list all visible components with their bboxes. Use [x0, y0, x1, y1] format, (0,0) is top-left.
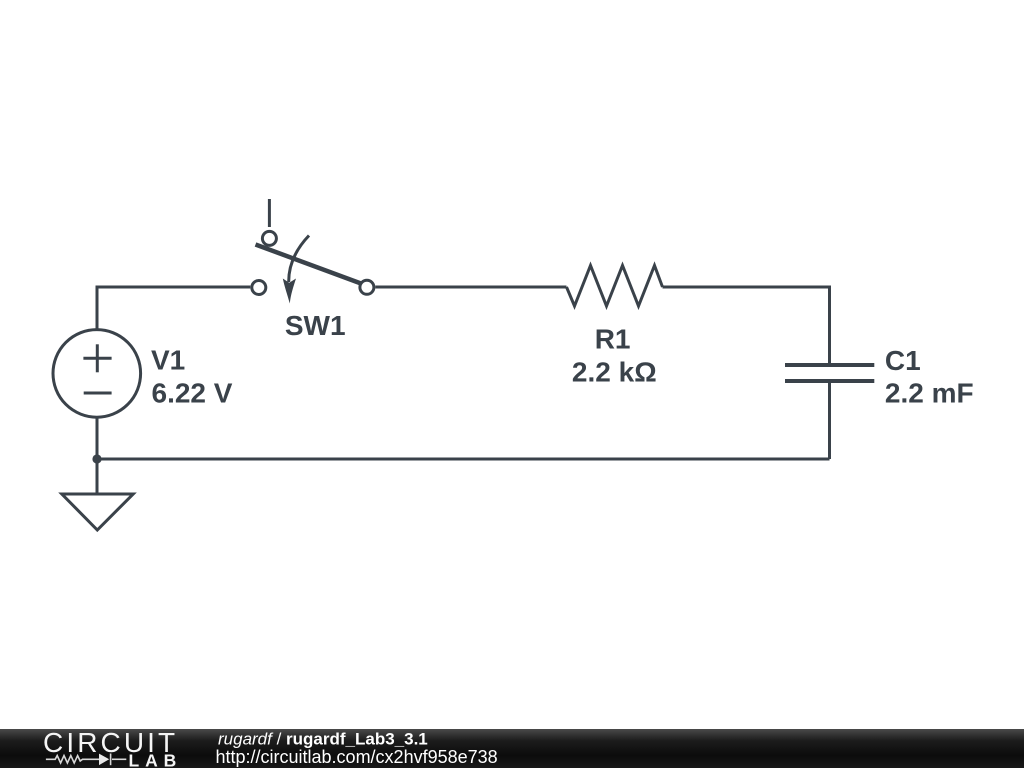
wire: top-left horizontal from V1 riser to switch left terminal — [97, 287, 250, 330]
switch arrowhead — [283, 279, 296, 304]
svg-text:LAB: LAB — [129, 750, 183, 768]
wire: capacitor bottom plate down to bottom rail — [828, 381, 831, 459]
switch terminal left — [252, 281, 266, 295]
wire: switch right terminal to resistor — [375, 286, 566, 289]
logo resistor-diode squiggle — [46, 754, 126, 766]
ground — [62, 494, 133, 530]
node junction dot — [92, 454, 101, 463]
footer bar — [0, 729, 1024, 768]
capacitor C1 — [785, 365, 874, 381]
switch arrow arc — [289, 236, 309, 283]
svg-text:http://circuitlab.com/cx2hvf95: http://circuitlab.com/cx2hvf958e738 — [216, 747, 498, 767]
wire: switch top stub — [268, 199, 271, 227]
switch lever — [256, 245, 362, 284]
wire: bottom rail — [97, 458, 830, 461]
switch terminal top — [262, 231, 276, 245]
voltage source V1 — [53, 330, 141, 418]
switch terminal right — [360, 280, 374, 294]
wire: resistor to top-right corner and down to capacitor top plate — [663, 287, 830, 365]
wire: V1 bottom to ground node — [96, 417, 99, 459]
wire: ground stub below node — [96, 459, 99, 494]
logo diode triangle — [99, 754, 109, 766]
resistor R1 — [567, 266, 663, 307]
switch SW1 — [252, 231, 374, 303]
